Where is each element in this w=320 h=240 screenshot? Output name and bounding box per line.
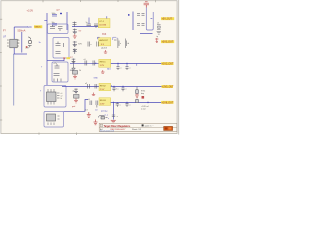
mid rail wire2	[70, 62, 99, 64]
svg-text:100n: 100n	[52, 13, 56, 15]
regulator U2 (highlighted)	[98, 19, 110, 28]
svg-text:+2V5_OUT: +2V5_OUT	[162, 87, 174, 89]
IC U4 small	[73, 71, 78, 75]
svg-text:1: 1	[19, 40, 20, 42]
svg-text:+1V2_OUT: +1V2_OUT	[162, 64, 174, 66]
net label +1V8 (yellow)	[161, 101, 173, 104]
svg-text:tp: tp	[157, 35, 159, 38]
regulator U10 (highlighted)	[99, 98, 111, 106]
net label +2V5 (yellow)	[162, 85, 174, 88]
ground flag Z1 (red)	[101, 70, 105, 73]
svg-text:ADJ: ADJ	[107, 68, 111, 71]
power flag PWR3 (red)	[94, 120, 98, 125]
svg-text:u: u	[129, 68, 130, 70]
capacitor C15	[125, 64, 128, 71]
pin row U6	[48, 116, 60, 125]
capacitor C9	[94, 24, 98, 28]
title icon	[100, 124, 102, 126]
ground GND4 (red)	[135, 94, 139, 98]
ground GND1 (red)	[73, 34, 77, 38]
svg-text:U?-1: U?-1	[99, 21, 105, 23]
svg-text:u: u	[120, 68, 121, 70]
svg-text:dz: dz	[73, 91, 75, 93]
capacitor C16	[88, 84, 90, 89]
ground GND2 (red)	[73, 75, 77, 79]
capacitor C10 left	[88, 42, 90, 47]
rail wire x133	[132, 12, 134, 31]
corner mark L1	[113, 37, 117, 40]
svg-text:.1: .1	[116, 38, 118, 40]
resistor R2	[56, 52, 61, 54]
module U5 outline	[44, 86, 66, 108]
svg-text:x: x	[108, 118, 109, 120]
module U6 outline	[44, 112, 64, 128]
regulator U7 (highlighted)	[99, 59, 111, 67]
frame zone ticks	[0, 0, 156, 135]
IC U5 body	[47, 92, 57, 102]
regulator U9 (highlighted)	[99, 83, 111, 90]
wire bus x22	[21, 32, 23, 53]
rail tick arrow	[44, 20, 47, 22]
svg-text:+1.8: +1.8	[84, 109, 88, 111]
capacitor C17	[95, 84, 97, 89]
capacitor C12	[85, 61, 87, 66]
power flag red small	[63, 58, 65, 60]
pin name specks U5	[61, 93, 63, 100]
central rail bus	[46, 13, 48, 85]
ESD diode D1	[73, 29, 77, 34]
gnd drop row4	[113, 102, 115, 119]
svg-text:u3: u3	[88, 99, 90, 101]
net label +5V (yellow, right top)	[151, 18, 153, 20]
junction dot2	[95, 63, 96, 64]
capacitor C18	[112, 87, 115, 92]
connector J5 outline	[146, 8, 153, 31]
pin row J4	[54, 79, 61, 82]
capacitor C6	[55, 64, 60, 68]
svg-text:Target Direct Regulators: Target Direct Regulators	[104, 125, 131, 128]
long wire net3	[111, 101, 163, 103]
junction tick row2	[136, 64, 138, 66]
capacitor C19	[121, 87, 124, 92]
capacitor C3	[50, 25, 55, 29]
IC U1 body	[10, 39, 17, 48]
junction dot6	[126, 102, 127, 103]
svg-text:1.8V: 1.8V	[100, 104, 105, 106]
svg-text:open in ···: open in ···	[145, 126, 155, 128]
logo	[164, 126, 173, 130]
svg-text:Sheet: 1/3: Sheet: 1/3	[132, 128, 142, 131]
svg-text:1.2V: 1.2V	[100, 65, 105, 67]
svg-text:io rail: io rail	[141, 109, 146, 111]
svg-text:REG1: REG1	[100, 62, 107, 64]
svg-text:fb: fb	[61, 98, 62, 100]
svg-text:LDO33: LDO33	[99, 25, 107, 27]
title right icon	[142, 124, 144, 126]
wire top J4	[47, 58, 64, 61]
svg-text:w1: w1	[157, 22, 159, 24]
svg-text:u: u	[90, 44, 91, 46]
svg-text:1u: 1u	[116, 89, 118, 91]
svg-text:adj 3v3: adj 3v3	[101, 48, 107, 50]
svg-text:tb: tb	[127, 42, 129, 45]
capacitor C4	[58, 27, 63, 32]
capacitor C13b	[125, 39, 126, 49]
capacitor C8	[87, 24, 92, 26]
pin tick	[106, 16, 108, 18]
svg-text:+1V8_OUT: +1V8_OUT	[162, 102, 174, 104]
left column row2: zener D4	[72, 59, 76, 64]
capacitor C14	[116, 64, 119, 71]
svg-text:u: u	[129, 105, 130, 107]
net stub yellow	[67, 57, 71, 59]
pin marks U5	[48, 89, 60, 105]
capacitor C24 plates	[112, 115, 115, 116]
power symbol VCC (red, top right)	[144, 2, 149, 8]
svg-text:4.7u: 4.7u	[54, 63, 58, 65]
svg-text:u: u	[120, 105, 121, 107]
resistor R6	[136, 99, 139, 102]
diode D3	[73, 49, 77, 55]
connector J3 outline	[53, 38, 69, 59]
capacitor C11 left	[97, 42, 99, 47]
svg-text:in, o: in, o	[105, 115, 109, 117]
connector J4 outline	[52, 62, 68, 82]
svg-text:u: u	[120, 43, 121, 45]
net label VIN (yellow highlight)	[34, 25, 42, 28]
svg-text:VBUS: VBUS	[35, 27, 41, 29]
pin mark	[63, 43, 65, 47]
capacitor C12b	[118, 39, 119, 49]
varistor RV1	[73, 22, 77, 27]
svg-text:u2: u2	[85, 83, 87, 85]
svg-text:+3.3V: +3.3V	[27, 10, 34, 13]
svg-text:+3V3_OUT: +3V3_OUT	[162, 42, 174, 44]
svg-text:u1: u1	[84, 59, 86, 61]
red tick	[26, 46, 28, 48]
svg-text:o: o	[111, 85, 112, 87]
svg-text:2: 2	[19, 43, 20, 45]
title block	[99, 123, 177, 132]
junction dot	[60, 13, 62, 14]
svg-text:2.5V: 2.5V	[100, 89, 105, 91]
wire under J5	[140, 33, 153, 35]
svg-text:u: u	[117, 116, 118, 118]
wire rail right	[66, 12, 68, 30]
long wire net2	[111, 63, 162, 65]
regulator U3 (highlighted)	[98, 37, 100, 39]
resistor R5	[136, 87, 139, 94]
svg-text:3V3: 3V3	[102, 33, 107, 36]
svg-text:REG2: REG2	[100, 85, 107, 87]
ground GND5 (red)	[111, 120, 116, 123]
capacitor C21	[96, 101, 98, 108]
crystal Y1	[157, 24, 161, 34]
svg-text:gnd: gnd	[72, 106, 75, 108]
capacitor C5	[56, 42, 61, 46]
TVS D2	[73, 41, 77, 47]
capacitor C1	[52, 15, 57, 17]
junction dot5	[113, 102, 114, 103]
capacitor bank CB2	[137, 24, 145, 26]
resistor R3	[54, 74, 60, 76]
svg-text:1k: 1k	[79, 70, 81, 72]
capacitor bank CB1	[137, 14, 145, 16]
power flag PWR2 (red)	[87, 112, 91, 117]
ground GND3 (red)	[74, 99, 78, 103]
svg-text:VIN: VIN	[28, 26, 32, 29]
diode D5	[70, 63, 75, 70]
capacitor C23	[125, 102, 128, 106]
junction dot4	[122, 86, 123, 87]
wire left tick	[128, 14, 130, 16]
svg-text:REG3: REG3	[100, 100, 107, 102]
wire stub up	[88, 18, 90, 25]
svg-text:net: net	[95, 109, 98, 112]
connector J2 outline	[48, 24, 69, 34]
svg-text:dnp: dnp	[141, 93, 144, 95]
wire U6 up branch	[64, 100, 89, 112]
IC U6 body	[47, 114, 56, 121]
wire net VIN horizontal	[14, 26, 28, 28]
svg-text:u: u	[125, 89, 126, 91]
sheet background	[0, 0, 180, 139]
capacitor C22	[116, 102, 119, 106]
svg-text:1u: 1u	[86, 22, 88, 24]
top mid rail wire	[72, 26, 99, 28]
net label +1V2 (yellow)	[161, 62, 173, 65]
red mark small	[142, 96, 145, 99]
wire U5 to row3	[62, 86, 162, 88]
zener D6	[74, 89, 78, 94]
wire stub light	[13, 54, 15, 106]
IC U8 small	[74, 95, 80, 99]
transistor Q1	[28, 37, 32, 47]
junction dot7	[147, 102, 149, 104]
net label +3V3 (yellow, right)	[161, 40, 174, 43]
svg-text:GND: GND	[94, 78, 99, 80]
jumper JP1	[99, 116, 108, 120]
svg-text:AMS1117: AMS1117	[99, 39, 109, 42]
capacitor C2	[52, 24, 57, 26]
capacitor C13	[93, 61, 95, 66]
junction dot3	[113, 86, 114, 87]
wire VIN down	[13, 27, 15, 54]
svg-text:kicad: power.sch: kicad: power.sch	[100, 129, 114, 132]
red flag Z2	[92, 93, 95, 96]
svg-text:+5V_OUT: +5V_OUT	[162, 19, 173, 21]
power flag PWR1 (red)	[155, 38, 158, 43]
sheet frame	[1, 0, 179, 135]
wire bottom h	[14, 53, 27, 55]
svg-text:pwr in: pwr in	[101, 110, 106, 113]
ground flag Z0 (red)	[104, 50, 107, 53]
capacitor C20	[90, 101, 92, 106]
